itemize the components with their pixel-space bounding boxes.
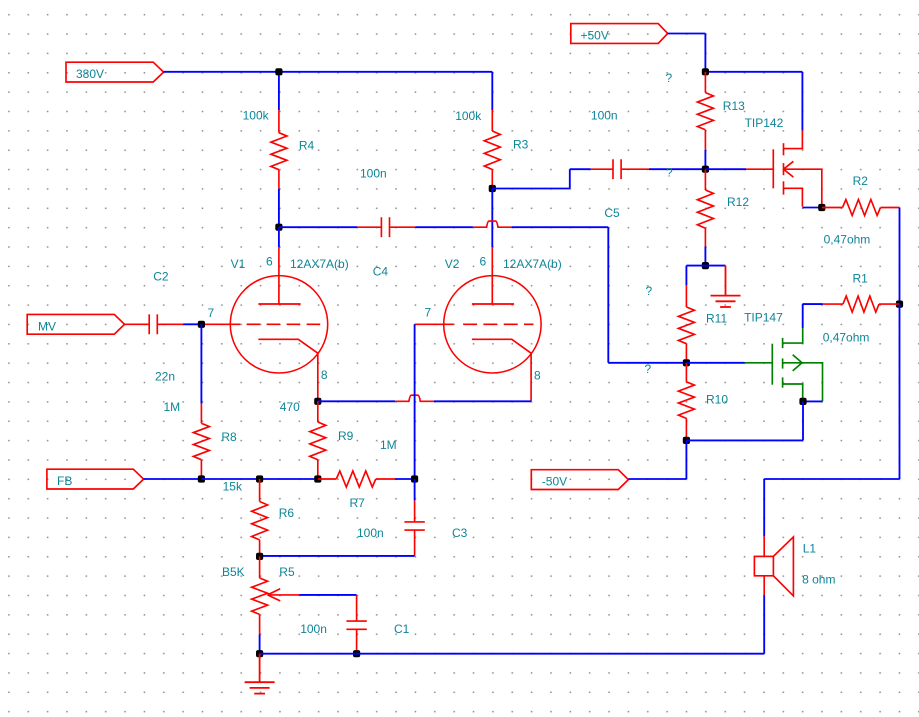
svg-text:8 ohm: 8 ohm: [802, 573, 835, 587]
svg-text:100n: 100n: [591, 109, 618, 123]
triode V2 anode pin 6: [472, 247, 514, 304]
svg-text:?: ?: [645, 362, 652, 376]
svg-text:R13: R13: [723, 99, 745, 113]
wire R12 to ground node: [704, 247, 706, 266]
input flag MV: [27, 314, 124, 334]
capacitor C5: [591, 159, 649, 179]
wire down to TIP147 collector: [802, 304, 804, 328]
wire C5 to base node: [649, 168, 705, 170]
transistor Q TIP142: [746, 130, 822, 207]
wire cathode right: [434, 400, 531, 402]
wire speaker top rail: [764, 478, 899, 480]
svg-text:12AX7A(b): 12AX7A(b): [290, 257, 349, 271]
resistor R9: [310, 401, 326, 479]
svg-text:100k: 100k: [243, 109, 270, 123]
svg-text:R12: R12: [727, 195, 749, 209]
svg-text:V1: V1: [231, 257, 246, 271]
node R9-R7 junction: [314, 475, 321, 482]
wire R10 node down: [685, 440, 687, 479]
wire TIP147 emitter return: [803, 400, 823, 402]
capacitor C2: [125, 314, 184, 334]
wire wiper to C1: [299, 594, 356, 596]
svg-text:15k: 15k: [223, 480, 243, 494]
resistor R1: [823, 296, 900, 312]
svg-text:R1: R1: [853, 272, 869, 286]
resistor R13: [697, 72, 713, 150]
wire R13 to base node: [704, 150, 706, 169]
node 380V-R4 junction: [275, 68, 282, 75]
wire R10 node to TIP147 output: [686, 439, 803, 441]
wire corner down to R13: [704, 34, 706, 72]
svg-text:1M: 1M: [164, 400, 181, 414]
svg-text:7: 7: [208, 306, 215, 320]
svg-text:8: 8: [321, 368, 328, 382]
node TIP142 base junction: [702, 166, 709, 173]
svg-text:FB: FB: [57, 474, 72, 488]
svg-text:R7: R7: [350, 496, 366, 510]
node R5 bottom junction: [256, 650, 263, 657]
wire R4 to V1 anode node: [278, 189, 280, 228]
wire -50V flag to R10 node: [628, 478, 686, 480]
node right rail R1 junction: [896, 301, 903, 308]
ground symbol near R12: [711, 266, 741, 307]
svg-text:C2: C2: [153, 269, 169, 283]
resistor R3: [484, 110, 500, 189]
wire C4 right: [415, 226, 473, 228]
input flag FB: [47, 469, 144, 489]
power flag 380V: [66, 62, 164, 82]
wire V2 grid vertical: [414, 324, 416, 479]
wire R3 node to C5 corner: [492, 188, 570, 190]
node R7-C3 junction: [411, 475, 418, 482]
potentiometer R5 wiper arrow: [268, 589, 300, 601]
wire corner to gate junction: [608, 362, 686, 364]
svg-text:R4: R4: [299, 139, 315, 153]
potentiometer R5: [252, 556, 268, 634]
wire speaker bottom down: [763, 595, 765, 653]
node R6 bottom junction: [256, 553, 263, 560]
speaker L1: [754, 536, 793, 596]
wire cathode left: [318, 400, 395, 402]
triode V2 envelope: [444, 276, 541, 373]
wire +50V node to TIP142 collector corner: [705, 71, 802, 73]
svg-text:R3: R3: [513, 137, 529, 151]
svg-text:6: 6: [266, 254, 273, 268]
wire grid node down to R8: [200, 324, 202, 403]
triode V1 anode pin 6: [258, 247, 300, 304]
node V1 cathode junction: [314, 398, 321, 405]
svg-text:22n: 22n: [155, 370, 175, 384]
wire ground node left: [686, 265, 705, 267]
svg-text:-50V: -50V: [542, 475, 567, 489]
power flag -50V: [531, 470, 628, 490]
node R12 ground junction: [702, 262, 709, 269]
svg-text:100k: 100k: [455, 109, 482, 123]
svg-text:R2: R2: [853, 174, 869, 188]
svg-text:100n: 100n: [357, 526, 384, 540]
svg-text:100n: 100n: [300, 622, 327, 636]
svg-text:MV: MV: [38, 319, 56, 333]
svg-text:8: 8: [534, 369, 541, 383]
wire down to R3: [491, 72, 493, 110]
svg-text:R11: R11: [706, 312, 727, 326]
wire corner up: [569, 169, 571, 188]
ground symbol bottom: [245, 654, 275, 694]
svg-text:C4: C4: [373, 264, 389, 278]
svg-text:?: ?: [666, 166, 673, 180]
wire C3 to R6 bottom: [260, 555, 415, 557]
node V1 grid junction: [198, 321, 205, 328]
svg-text:R5: R5: [279, 565, 295, 579]
wire C3 node down: [414, 479, 416, 500]
wire anode node to V1 pin 6: [278, 227, 280, 247]
resistor R12: [697, 169, 713, 246]
svg-text:470: 470: [280, 400, 300, 414]
wire bottom rail: [260, 653, 765, 655]
svg-text:?: ?: [646, 284, 653, 298]
wire down to TIP142 collector: [801, 72, 803, 131]
svg-text:1M: 1M: [380, 438, 397, 452]
node V1 anode junction: [275, 224, 282, 231]
node TIP147 output junction: [799, 398, 806, 405]
svg-text:?: ?: [666, 71, 673, 85]
capacitor C3: [404, 500, 424, 556]
wire down to gate node: [607, 227, 609, 363]
wire speaker top down: [763, 479, 765, 536]
resistor R8: [193, 404, 209, 479]
resistor R11: [678, 285, 694, 363]
wire C4 to corner: [512, 226, 609, 228]
resistor R2: [822, 200, 900, 216]
triode V2 cathode pin 8: [472, 339, 531, 401]
wire TIP147 output down: [802, 401, 804, 440]
node R3-V2 anode junction: [489, 185, 496, 192]
wire corner to C5: [570, 168, 591, 170]
power flag +50V: [571, 24, 668, 44]
capacitor C1: [346, 595, 366, 654]
capacitor C4: [357, 217, 415, 237]
wire anode node to C4: [279, 226, 357, 228]
svg-text:C5: C5: [604, 206, 620, 220]
wire down to R11: [685, 266, 687, 285]
wire R3 node to V2 pin 6: [491, 189, 493, 248]
wire right rail lower: [899, 304, 901, 479]
wire FB flag to R8: [144, 478, 202, 480]
node TIP147 gate junction: [683, 359, 690, 366]
triode V2 grid pin 7: [415, 323, 454, 325]
resistor R10: [678, 363, 694, 441]
svg-text:L1: L1: [803, 542, 817, 556]
svg-text:6: 6: [480, 254, 487, 268]
svg-text:C3: C3: [452, 526, 468, 540]
resistor R6: [252, 479, 268, 556]
node FB-R8 junction: [198, 475, 205, 482]
svg-text:380V: 380V: [76, 67, 104, 81]
wire hop over V2 anode: [473, 221, 512, 227]
wire ground node right: [705, 265, 725, 267]
wire R4 node to R3 top corner: [279, 71, 492, 73]
wire base node to TIP142: [705, 168, 746, 170]
node C1 bottom junction: [353, 650, 360, 657]
svg-text:R8: R8: [221, 430, 237, 444]
triode V2 grid dashed: [463, 323, 533, 325]
svg-text:TIP147: TIP147: [744, 310, 783, 324]
wire R5 lower: [259, 635, 261, 654]
node R10 bottom junction: [683, 437, 690, 444]
wire TIP142 source to R2 node: [802, 207, 821, 209]
wire 380V to R4 node: [164, 71, 279, 73]
svg-text:0,47ohm: 0,47ohm: [824, 233, 871, 247]
triode V1 grid dashed: [247, 323, 321, 325]
svg-text:0,47ohm: 0,47ohm: [823, 331, 870, 345]
wire 380V node down to R4: [278, 72, 280, 110]
wire gate junction to TIP147: [686, 362, 744, 364]
resistor R4: [271, 110, 287, 189]
svg-text:B5K: B5K: [222, 565, 245, 579]
wire R1 to TIP147 corner: [802, 303, 822, 305]
svg-text:TIP142: TIP142: [745, 116, 784, 130]
transistor Q TIP147: [745, 328, 823, 401]
svg-text:12AX7A(b): 12AX7A(b): [503, 257, 562, 271]
wire hop over V2 grid wire: [395, 395, 434, 401]
svg-text:R6: R6: [279, 506, 295, 520]
node R6 top junction: [256, 475, 263, 482]
triode V1 grid pin 7: [201, 323, 240, 325]
resistor R7: [318, 471, 395, 487]
svg-text:V2: V2: [445, 257, 460, 271]
svg-text:100n: 100n: [360, 167, 387, 181]
svg-text:R10: R10: [706, 393, 728, 407]
wire right rail upper: [899, 208, 901, 305]
wire C2 to grid node: [183, 323, 201, 325]
wire R7 to C3 node: [395, 478, 415, 480]
svg-text:R9: R9: [338, 429, 354, 443]
svg-text:C1: C1: [394, 622, 410, 636]
wire FB rail: [201, 478, 317, 480]
wire +50V flag to corner: [668, 33, 706, 35]
node TIP142 output junction: [818, 204, 825, 211]
svg-text:7: 7: [425, 306, 432, 320]
triode V1 cathode pin 8: [258, 339, 317, 401]
node +50V junction: [702, 68, 709, 75]
triode V1 envelope: [230, 276, 327, 373]
svg-text:+50V: +50V: [581, 29, 609, 43]
